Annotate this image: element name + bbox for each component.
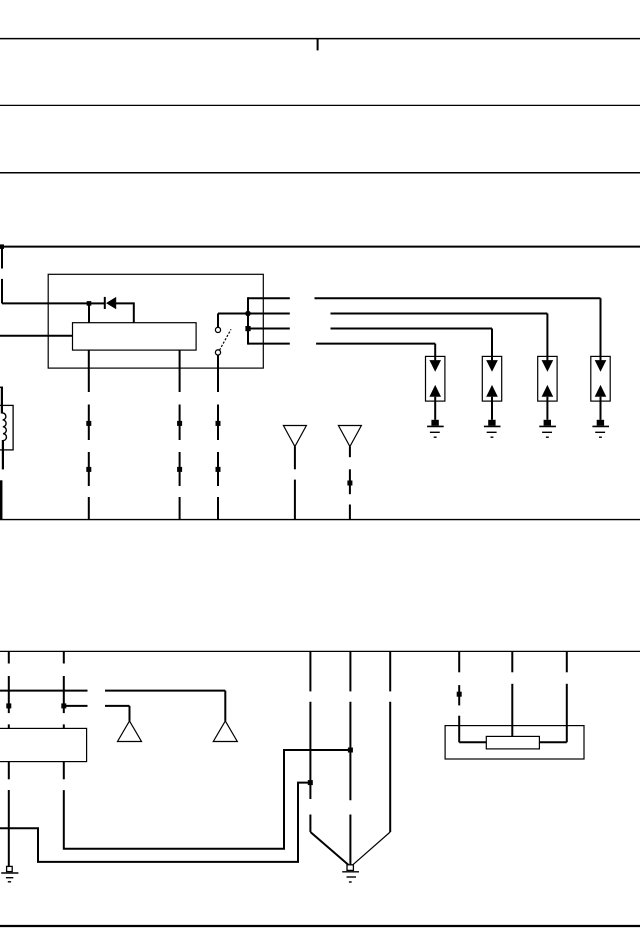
relay coil box [73, 323, 197, 350]
node splice on drop b [61, 703, 66, 708]
ground for injector 2 [484, 420, 501, 437]
wire power rail 1 [0, 38, 640, 40]
diode D (clamping) [91, 297, 134, 323]
wire dashed drop d (x=350.4) [349, 651, 351, 864]
ignition coil L1 (left edge) [0, 387, 13, 470]
node splice on drop B [347, 481, 352, 486]
connector triangle A [283, 426, 306, 447]
connector triangle D [213, 721, 237, 742]
connector triangle C [118, 721, 142, 742]
wire coil pin 2 drop [179, 350, 181, 519]
ground for injector 3 [539, 420, 556, 437]
ground for injector 4 [592, 420, 609, 437]
wire dashed drop c (x=310.4) [310, 651, 348, 865]
wire ground drop from module pin a [8, 762, 10, 867]
wire injector line 1 [248, 298, 601, 361]
wire coil drop to rail [0, 480, 2, 519]
control module box (left) [0, 728, 87, 761]
node splice on drop a [6, 703, 11, 708]
node splice on coil pin 2 [177, 421, 182, 472]
node splice on drop f [457, 692, 462, 697]
wire to relay coil top [2, 302, 89, 304]
injector 1 [426, 356, 445, 419]
wire bottom section top rail [0, 650, 640, 652]
node bus junction square [245, 326, 250, 331]
wire power rail 3 [0, 172, 640, 174]
ground for injector 1 [427, 420, 444, 437]
node splice on switch drop [216, 421, 221, 472]
wire dashed drop e (x=390.2) [353, 651, 390, 865]
wire switch output drop [217, 355, 219, 520]
wire switch to bus [218, 313, 248, 315]
wire power rail 4 [0, 246, 640, 248]
switch SW relay contact [215, 314, 231, 356]
node splice on coil pin 1 [86, 421, 91, 472]
wire dashed drop g (x=512.3) [511, 651, 513, 736]
wire stub to fuse [317, 39, 319, 51]
node junction on rail 4 [0, 244, 4, 249]
wire from left edge to splice F [0, 783, 310, 862]
node splice F [308, 780, 313, 785]
node bus junction round [245, 311, 251, 317]
wire bottom border [0, 925, 640, 927]
wire junction to coil rect [88, 303, 90, 322]
wire dashed drop from rail 4 [1, 247, 3, 304]
wire dashed drop a (x=8.8) [8, 651, 10, 728]
wire output bus vertical [247, 297, 249, 344]
wire dashed drop f (x=459.2) [459, 651, 486, 742]
wire injector line 3 [248, 329, 492, 362]
node junction at diode branch [87, 301, 92, 306]
wire to connector triangle D [0, 691, 225, 721]
node splice E [348, 748, 353, 753]
wire coil pin 1 drop [88, 350, 90, 519]
connector triangle B [338, 426, 361, 447]
injector 3 [538, 356, 557, 419]
wire injector line 4 [248, 344, 435, 361]
wire dashed drop b (x=63.8) [63, 651, 65, 728]
wire dashed drop h (x=566.8) [539, 651, 566, 742]
wire injector line 2 [248, 314, 547, 362]
wire coil feed from left [0, 335, 73, 337]
ground G1 [1, 866, 18, 881]
sensor box (right) [445, 726, 584, 759]
wire drop from triangle B [349, 447, 351, 520]
wire module pin b to splice E [64, 750, 351, 849]
wire drop from triangle A [294, 447, 296, 520]
ground G2 [342, 865, 359, 882]
resistor element inside sensor box [486, 736, 539, 749]
wire to connector triangle C [64, 706, 130, 721]
wire power rail 2 [0, 104, 640, 106]
wire middle section bottom rail [0, 519, 640, 521]
injector 2 [482, 356, 501, 419]
relay box [48, 274, 263, 368]
injector 4 [591, 356, 610, 419]
